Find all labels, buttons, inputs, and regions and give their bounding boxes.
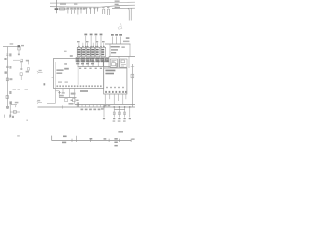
label 1.5V	[60, 3, 66, 5]
diode D1 on V1	[6, 96, 12, 109]
capacitor C1 on V1	[6, 66, 11, 69]
cluster bus	[78, 66, 111, 68]
wire module mid	[109, 56, 135, 58]
faint mark bottom left	[17, 135, 20, 136]
junction dots bus B	[103, 106, 130, 107]
capacitor on drop2	[118, 112, 120, 115]
offpage arrow left mid	[37, 70, 43, 74]
wire U1 leg jog	[56, 91, 60, 98]
cluster row1 inner text	[78, 49, 105, 55]
wire horizontal y60	[13, 59, 21, 61]
capacitor series on bus A	[77, 102, 78, 107]
right drops below bus B	[104, 107, 130, 118]
wire stub y103	[47, 102, 56, 104]
block G4	[91, 58, 96, 62]
dash group left	[13, 89, 21, 91]
drop end labels	[113, 120, 126, 121]
block F6	[101, 47, 106, 56]
cluster pin circles	[78, 46, 104, 47]
annotation arrow top right	[118, 23, 122, 29]
label near x28	[26, 71, 29, 73]
capacitor on drop3	[124, 112, 126, 115]
transistor chain V2	[13, 47, 30, 90]
labels below bus right	[101, 108, 104, 110]
module text	[111, 46, 125, 53]
tick on U1 left edge	[52, 77, 54, 79]
offpage arrow bottom left mid	[37, 100, 42, 104]
pin smudge inside U1 top	[64, 68, 69, 70]
capacitor C104	[77, 8, 80, 15]
bottom left connector cluster	[4, 102, 20, 118]
resistor R3	[18, 47, 21, 50]
wire module v3	[128, 56, 130, 68]
faint row inside U1	[58, 81, 68, 82]
bus line A	[75, 104, 135, 106]
capacitor C108 polarized	[89, 8, 91, 14]
block F4	[91, 47, 95, 56]
bus labels below	[81, 109, 101, 111]
label below U1 pins	[71, 93, 76, 95]
block F3	[87, 47, 91, 56]
wire module top	[105, 43, 130, 45]
capacitor C105	[80, 8, 83, 14]
component on x28.7	[27, 68, 29, 70]
pin row faint U2	[106, 87, 124, 88]
capacitor on drop1	[113, 112, 115, 115]
node junction J1	[55, 8, 58, 10]
drop end marks	[103, 118, 131, 119]
label above bottom right	[118, 131, 123, 133]
label right upper	[126, 37, 130, 39]
bottom rail ticks	[51, 136, 53, 141]
resistor R4	[20, 73, 22, 76]
bus A stubs	[82, 105, 101, 108]
left rail	[3, 43, 24, 109]
label below plus	[59, 95, 64, 97]
wire vertical feed	[56, 0, 58, 13]
end ticks	[3, 115, 5, 118]
wire dashes after R101	[65, 8, 69, 10]
faint mark left of cluster	[64, 51, 67, 52]
label left of bus A	[69, 103, 74, 105]
block G3	[86, 58, 90, 62]
row2 below text	[76, 63, 94, 65]
coil L102	[107, 9, 109, 15]
wire rail top3 right	[112, 7, 135, 9]
U1 bottom pin legs	[56, 89, 75, 105]
label rail2 right	[115, 4, 119, 5]
coil L103	[128, 8, 131, 20]
cluster feed labels top	[84, 34, 102, 36]
node junction dark	[18, 45, 21, 47]
label below U1 pins right	[80, 90, 88, 92]
capacitor below bus97 a	[65, 99, 68, 102]
bottom labels	[62, 136, 118, 147]
capacitor C103	[73, 8, 76, 14]
block F2	[82, 47, 86, 56]
block G6	[101, 58, 105, 62]
label rail	[74, 3, 77, 5]
cluster feeds short	[79, 43, 104, 48]
label S1	[4, 58, 6, 60]
label Q5	[15, 102, 19, 104]
capacitor C107 polarized	[85, 8, 87, 14]
wire module right drop	[129, 44, 131, 56]
filter T2	[120, 59, 127, 67]
row2 legs	[78, 62, 103, 67]
wire Q1 emitter	[20, 63, 22, 70]
label left of cluster2	[64, 63, 67, 64]
wire right edge vertical	[131, 64, 134, 107]
label Q1	[26, 60, 29, 62]
box on y112	[13, 111, 16, 114]
label right of junction	[21, 45, 24, 46]
coil L101	[103, 9, 105, 14]
label between buses	[103, 105, 106, 107]
label L102	[107, 7, 109, 8]
bottom rail	[52, 136, 132, 142]
component on right edge	[131, 74, 134, 78]
label U2 name	[105, 70, 115, 75]
IC block U1	[54, 59, 104, 89]
wire vertical bottom left	[9, 102, 11, 117]
cluster feeds long	[86, 36, 101, 48]
wire bus y97.6	[59, 97, 76, 99]
capacitor C109 polarized	[93, 8, 95, 14]
resistor R1 on V1	[6, 53, 11, 56]
wire rail top1	[50, 1, 135, 4]
wire module v1	[108, 56, 110, 68]
tick on bus B left	[62, 105, 64, 108]
wire module v2	[118, 56, 120, 68]
mark below R3	[18, 53, 20, 55]
label above module	[123, 41, 129, 43]
block G7	[106, 58, 109, 62]
leg labels row	[71, 100, 79, 101]
plus symbol	[58, 91, 61, 94]
capacitor C106	[83, 8, 85, 10]
pin labels U2 bottom	[105, 91, 126, 93]
label on U1 leg	[62, 92, 65, 93]
label left of cluster	[70, 55, 73, 57]
cluster short feed labels	[77, 41, 105, 42]
pin number smudges below bus	[79, 68, 102, 69]
label on V1 low	[9, 91, 11, 94]
wire rail top3	[57, 8, 68, 10]
label above left rail	[10, 43, 14, 44]
label rail1 right	[115, 1, 120, 2]
filter T1	[110, 59, 117, 67]
IC block U2	[104, 68, 127, 94]
label right of rail end	[132, 138, 135, 140]
module feed labels	[111, 34, 122, 36]
label rail3 right	[115, 7, 120, 8]
resistor R2 on V1	[6, 78, 12, 81]
block F1	[77, 47, 81, 56]
transistor Q1	[21, 59, 23, 62]
filter cluster row2	[76, 58, 109, 62]
capacitor C101	[67, 8, 70, 14]
capacitor C2	[20, 68, 22, 69]
end blob	[12, 116, 14, 118]
pin labels U1 bottom	[57, 85, 102, 87]
label L101	[102, 7, 104, 8]
block F5	[96, 47, 100, 56]
dash group right	[25, 89, 29, 91]
capacitor C110	[97, 8, 99, 12]
wire rail top2	[50, 5, 135, 7]
block G1	[76, 58, 80, 62]
filter cluster row1	[77, 47, 105, 56]
bus line B	[38, 106, 136, 108]
transistor Q5 curl	[11, 105, 17, 108]
block G5	[96, 58, 100, 62]
wire x28.7	[28, 61, 30, 65]
label b	[44, 83, 46, 85]
wire V1 vertical	[7, 47, 9, 110]
module box top right	[105, 37, 135, 69]
capacitor C102	[70, 8, 73, 14]
label S2	[5, 71, 7, 73]
label U1 name	[56, 69, 63, 74]
wire cluster bus left drop	[77, 66, 79, 84]
wire R4 down	[20, 76, 22, 81]
wire module drop	[109, 44, 111, 56]
capacitor below bus97 b	[72, 99, 75, 102]
row2 inner text	[76, 58, 108, 61]
bus line C short	[115, 109, 126, 111]
U2 pin legs	[105, 94, 126, 104]
block G2	[81, 58, 85, 62]
wire inner parallel line U1	[54, 62, 56, 88]
wire horizontal y112	[10, 111, 20, 113]
resistor R101	[60, 8, 65, 10]
faint mark right of cluster	[26, 120, 28, 121]
